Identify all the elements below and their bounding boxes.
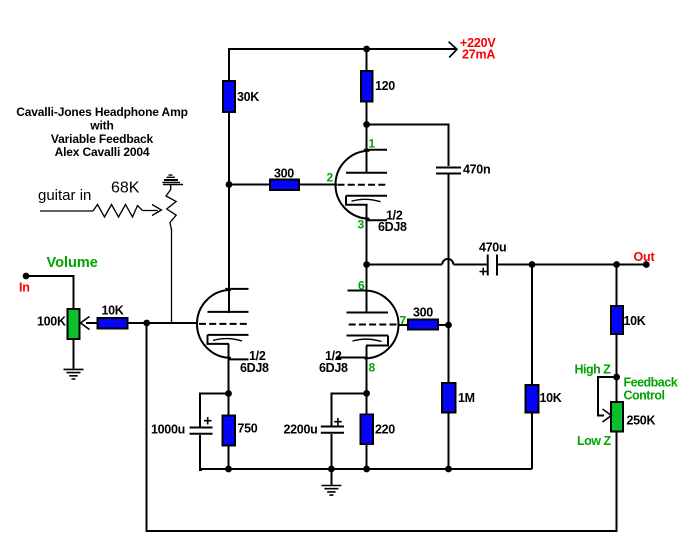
wire 750 top lead: [228, 394, 230, 416]
wire U2b grid pin7 to 300: [398, 324, 409, 326]
junction node out branch: [613, 261, 620, 268]
wire cathode node to 1000u: [200, 394, 229, 427]
svg-text:220: 220: [375, 423, 395, 437]
svg-text:Volume: Volume: [47, 255, 98, 271]
wire 100K bottom to ground: [73, 339, 75, 369]
terminal Out: [643, 261, 650, 268]
svg-text:470n: 470n: [463, 163, 490, 177]
wire U2b cathode pin8 down: [366, 346, 368, 393]
resistor 1M: [442, 383, 456, 413]
wire 120 branch top: [366, 48, 368, 71]
wiper arrow to 68K pot: [143, 210, 159, 212]
wire 1M bottom to ground rail: [448, 413, 450, 470]
svg-text:68K: 68K: [111, 180, 140, 197]
wire U1a plate lead (node A down into tube): [228, 184, 230, 313]
wire 532 branch down to 10K: [531, 265, 533, 386]
svg-text:guitar in: guitar in: [38, 187, 91, 204]
junction node B (300/470n/1M): [445, 322, 452, 329]
wire 10K to ground rail: [531, 413, 533, 470]
svg-text:2200u: 2200u: [284, 423, 318, 437]
wire feedback loop left up to grid node: [146, 323, 148, 532]
svg-text:Variable Feedback: Variable Feedback: [51, 132, 154, 146]
svg-text:6DJ8: 6DJ8: [240, 361, 269, 375]
svg-text:7: 7: [400, 314, 407, 328]
resistor 220: [361, 414, 374, 444]
wire hop over vertical: [442, 259, 453, 265]
junction node A (30K/300/plate): [226, 181, 233, 188]
junction node rail/1M: [445, 466, 452, 473]
svg-text:300: 300: [274, 167, 294, 181]
capacitor 470n plates: [436, 168, 461, 174]
wire 30K to node A: [228, 112, 230, 184]
wire B+ rail: [228, 48, 456, 50]
svg-text:100K: 100K: [37, 315, 66, 329]
svg-text:30K: 30K: [237, 90, 259, 104]
resistor 10K (feedback upper): [611, 306, 623, 334]
svg-text:10K: 10K: [540, 391, 562, 405]
svg-text:470u: 470u: [479, 241, 506, 255]
svg-text:2: 2: [327, 171, 334, 185]
capacitor 470u plates: [488, 255, 497, 276]
wire 250K bottom to feedback loop: [616, 432, 618, 532]
svg-text:Control: Control: [624, 389, 665, 403]
junction node 532 branch: [529, 261, 536, 268]
svg-text:27mA: 27mA: [462, 48, 495, 62]
svg-text:1M: 1M: [458, 391, 475, 405]
svg-text:Alex Cavalli 2004: Alex Cavalli 2004: [55, 145, 150, 159]
junction node rail/220: [363, 466, 370, 473]
junction node rail/ground: [328, 466, 335, 473]
wire 10K feedback to HighZ node: [616, 334, 618, 402]
resistor 68K zigzag: [93, 205, 143, 218]
ground (cathode rail): [321, 486, 341, 496]
capacitor 2200u polarity +: [334, 418, 342, 425]
capacitor 2200u plates: [321, 427, 344, 433]
svg-text:In: In: [19, 281, 30, 295]
svg-text:6DJ8: 6DJ8: [378, 220, 407, 234]
svg-text:1000u: 1000u: [151, 423, 185, 437]
wire 68K pot to grid node: [171, 229, 173, 323]
svg-text:Low Z: Low Z: [577, 434, 611, 448]
junction node B+ rail / 120: [363, 46, 370, 53]
resistor 30K: [223, 81, 235, 112]
wire U1 cathode pin3 down to U2 plate pin6: [366, 205, 368, 314]
wire out branch down to 10K feedback: [616, 265, 618, 307]
resistor 10K (cathode load): [526, 385, 539, 413]
arrow 100K wiper (points left into pot): [81, 317, 90, 330]
svg-text:Out: Out: [634, 250, 656, 264]
junction node U2a grid: [143, 320, 150, 327]
junction node U2b cathode: [363, 390, 370, 397]
wire 100K wiper to 10K: [86, 322, 98, 324]
wire In terminal to 100K: [26, 276, 74, 309]
wire plate node to 470n: [367, 125, 449, 167]
wire 1000u to ground rail corner: [200, 435, 202, 470]
title block: [16, 105, 188, 159]
resistor 300 (U1a grid stopper): [270, 180, 299, 191]
wire 30K branch top: [228, 48, 230, 81]
potentiometer 100K Volume: [68, 309, 80, 339]
wire 10K to U1a grid node: [128, 322, 199, 324]
wire 470u to Out terminal: [498, 264, 646, 266]
junction node rail/750: [225, 466, 232, 473]
wire cathode node to hop: [367, 264, 443, 266]
wire U2a cathode pin down: [228, 344, 230, 394]
wire 220 top lead: [366, 393, 368, 414]
resistor 120: [361, 71, 373, 102]
wire R 300 to U1 grid pin2: [299, 184, 337, 186]
potentiometer 250K Feedback: [611, 402, 623, 432]
wire node A to R 300: [229, 184, 270, 186]
wire 120 bottom to U1 plate pin1: [366, 102, 368, 174]
terminal In: [23, 273, 30, 280]
svg-text:6DJ8: 6DJ8: [319, 361, 348, 375]
svg-text:10K: 10K: [624, 314, 646, 328]
wire cathode ground rail: [200, 468, 532, 470]
svg-text:10K: 10K: [102, 304, 124, 318]
tube U1a (top, 1/2 6DJ8): [336, 150, 388, 221]
svg-text:Feedback: Feedback: [624, 376, 678, 390]
junction node plate/470n: [363, 121, 370, 128]
wire 220 bottom lead: [366, 444, 368, 469]
svg-text:6: 6: [358, 279, 365, 293]
ground (inverted, above 68K pot): [162, 175, 183, 184]
svg-text:250K: 250K: [627, 414, 656, 428]
resistor 750: [223, 416, 236, 446]
potentiometer 68K (vertical zigzag): [166, 185, 176, 231]
wire HighZ bypass to wiper: [598, 377, 617, 416]
resistor 300 (U2b grid): [408, 320, 438, 330]
junction node U2a cathode: [225, 390, 232, 397]
wire 2200u to ground rail: [330, 434, 332, 469]
wire 750 bottom lead: [228, 446, 230, 470]
arrow 250K wiper (points right into pot): [603, 409, 612, 422]
svg-text:1: 1: [369, 137, 376, 151]
wire cathode node to 2200u: [331, 393, 366, 425]
resistor 10K (input): [98, 318, 128, 329]
svg-text:120: 120: [375, 79, 395, 93]
svg-text:Cavalli-Jones Headphone Amp: Cavalli-Jones Headphone Amp: [16, 105, 188, 119]
svg-text:750: 750: [238, 422, 258, 436]
svg-text:High Z: High Z: [575, 363, 612, 377]
wire hop to 470u: [453, 264, 486, 266]
capacitor 1000u plates: [190, 428, 213, 434]
svg-text:300: 300: [413, 306, 433, 320]
guitar in wire: [40, 185, 176, 324]
arrow B+ supply: [449, 42, 457, 58]
wire 470n to node B: [448, 175, 450, 384]
svg-text:8: 8: [369, 361, 376, 375]
wire feedback loop bottom: [146, 530, 618, 532]
capacitor 1000u polarity +: [204, 417, 212, 424]
tube U2a (bottom left, 1/2 6DJ8): [197, 289, 249, 360]
junction node cathode/output coupling: [363, 261, 370, 268]
tube U2b (bottom middle, 1/2 6DJ8, mirrored): [336, 291, 399, 359]
wire 300 to node B: [438, 324, 449, 326]
junction node HighZ tap: [613, 374, 620, 381]
ground (below 100K): [64, 369, 84, 379]
wire ground symbol stem: [330, 469, 332, 485]
capacitor 470u polarity +: [480, 268, 488, 275]
svg-text:with: with: [89, 119, 113, 133]
svg-text:3: 3: [358, 218, 365, 232]
